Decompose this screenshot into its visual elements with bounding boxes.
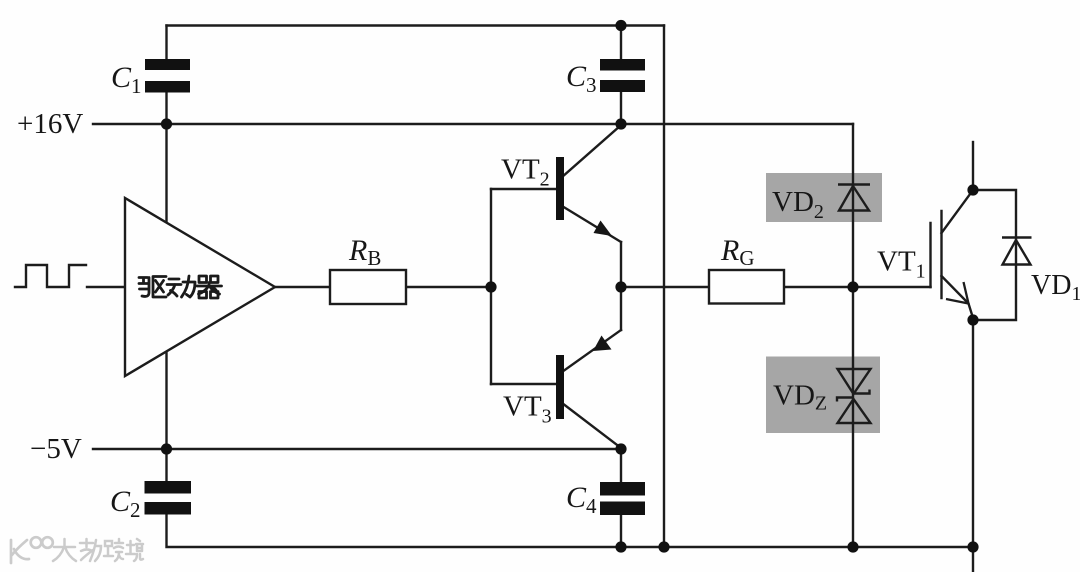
svg-text:C4: C4 [566,481,597,518]
svg-text:C2: C2 [110,485,141,522]
svg-text:RG: RG [720,234,755,270]
svg-text:+16V: +16V [17,108,83,140]
svg-text:VT1: VT1 [877,246,926,283]
svg-text:RB: RB [348,234,381,270]
svg-text:C3: C3 [566,60,597,97]
svg-text:VD1: VD1 [1031,270,1080,305]
svg-text:C1: C1 [111,61,142,98]
svg-text:VT3: VT3 [503,391,552,428]
svg-text:VT2: VT2 [501,154,550,191]
svg-text:−5V: −5V [30,433,82,465]
